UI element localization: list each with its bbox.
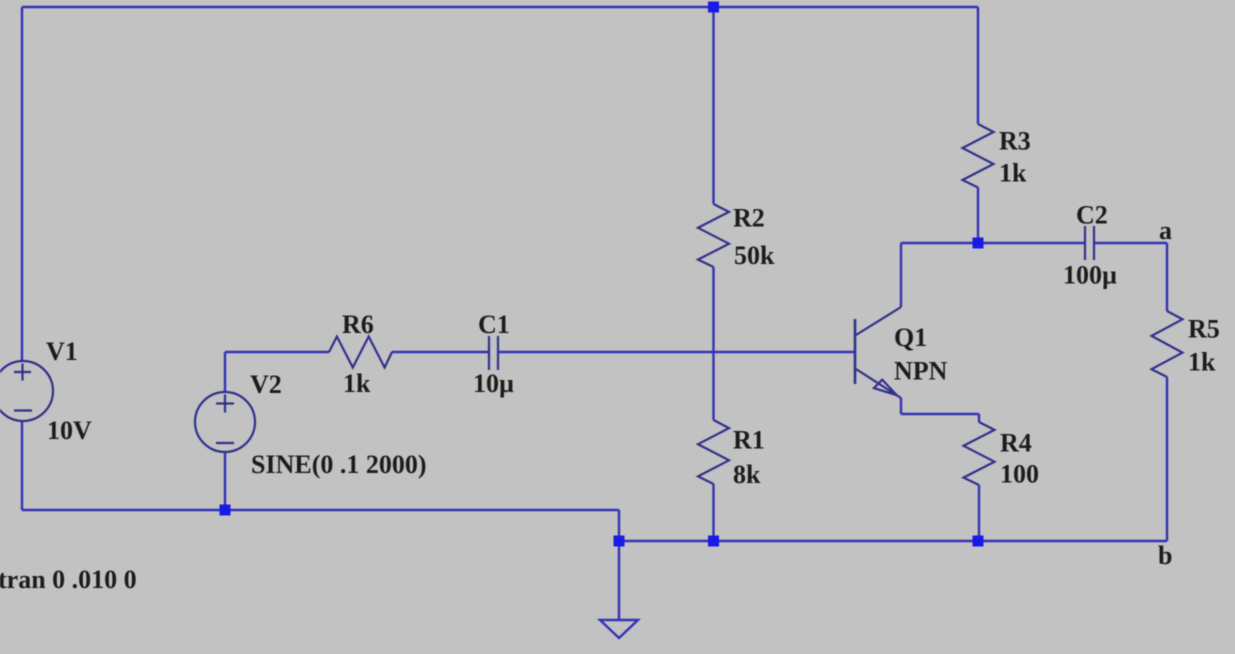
wire R3 to collector node (977, 188, 979, 244)
transistor Q1 (855, 307, 901, 398)
junction V2 / bottom rail (220, 505, 231, 516)
svg-text:R6: R6 (342, 310, 374, 339)
svg-text:1k: 1k (1188, 348, 1216, 377)
svg-text:a: a (1159, 216, 1172, 245)
svg-text:1k: 1k (999, 159, 1027, 188)
resistor R5 (1152, 311, 1183, 377)
ground (600, 620, 638, 638)
resistor R2 (698, 204, 729, 267)
svg-text:R2: R2 (733, 204, 765, 233)
svg-text:SINE(0 .1 2000): SINE(0 .1 2000) (251, 450, 427, 479)
wire top to R2 (712, 7, 714, 204)
svg-text:50k: 50k (734, 241, 775, 270)
svg-text:tran 0 .010 0: tran 0 .010 0 (0, 565, 137, 594)
wire C2 to R5 corner (1094, 242, 1167, 244)
wire down to R5 (1166, 243, 1168, 311)
svg-text:1k: 1k (343, 369, 371, 398)
wire V2 bottom lead (224, 452, 226, 510)
resistor R4 (964, 422, 995, 485)
voltage source V2 (195, 392, 255, 452)
wire R4 to ground rail (978, 485, 980, 541)
resistor R1 (698, 420, 729, 484)
svg-text:R4: R4 (1000, 429, 1032, 458)
svg-text:V2: V2 (250, 370, 282, 399)
wire Q1 emitter lead (900, 398, 902, 414)
svg-text:100µ: 100µ (1063, 261, 1117, 290)
junction ground (614, 536, 625, 547)
svg-text:R5: R5 (1188, 315, 1220, 344)
svg-text:8k: 8k (733, 460, 761, 489)
svg-text:C1: C1 (478, 310, 510, 339)
junction R4 / ground rail (973, 536, 984, 547)
svg-text:R1: R1 (733, 426, 765, 455)
svg-text:R3: R3 (999, 127, 1031, 156)
wire R2 to R1 (712, 267, 714, 420)
wire ground rail (619, 540, 1167, 542)
wire R5 to ground rail (1166, 377, 1168, 541)
wire to ground symbol (618, 541, 620, 619)
wire V2 to R6 (225, 351, 329, 353)
resistor R3 (963, 124, 994, 188)
svg-text:100: 100 (1000, 460, 1039, 489)
wire bottom-left rail (22, 509, 619, 511)
wire V2 top lead (224, 352, 226, 391)
wire V1 top lead (21, 7, 23, 361)
wire top to R3 (977, 7, 979, 124)
wire V1 bottom lead (21, 421, 23, 510)
wire step down to ground rail (618, 510, 620, 541)
svg-text:10V: 10V (47, 416, 92, 445)
junction top rail / R2 (708, 2, 719, 13)
wire emitter to R4 (901, 413, 979, 415)
svg-text:V1: V1 (46, 337, 78, 366)
wire node to C2 (978, 242, 1085, 244)
junction R1 / ground rail (708, 536, 719, 547)
svg-text:b: b (1158, 541, 1172, 570)
wire R6 to C1 (392, 351, 489, 353)
svg-text:NPN: NPN (894, 357, 948, 386)
resistor R6 (329, 337, 392, 368)
wire C1 to Q1 base (498, 351, 855, 353)
capacitor C2 (1085, 226, 1094, 260)
wire R1 to ground rail (712, 484, 714, 541)
voltage source V1 (0, 361, 53, 421)
wire top rail (22, 6, 978, 8)
svg-text:Q1: Q1 (894, 323, 927, 352)
wire Q1 collector lead (900, 243, 902, 307)
svg-text:C2: C2 (1076, 201, 1108, 230)
svg-text:10µ: 10µ (473, 369, 514, 398)
wire collector to node (901, 242, 978, 244)
junction R3 / collector / C2 (973, 238, 984, 249)
wire R4 top stub (978, 414, 980, 422)
capacitor C1 (489, 336, 498, 370)
